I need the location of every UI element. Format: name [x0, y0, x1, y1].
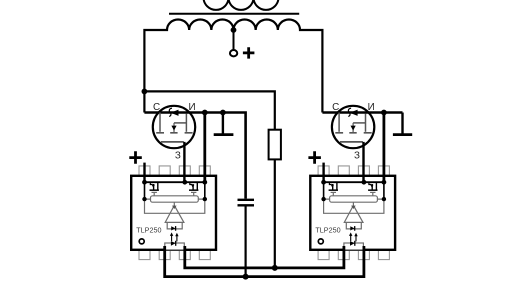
capacitor C1	[238, 200, 255, 206]
node: resistor junction on upper bus	[272, 265, 278, 271]
U1 receiver amplifier triangle	[173, 202, 175, 205]
U1 light arrows	[172, 235, 177, 242]
ground bar right	[401, 113, 403, 135]
svg-text:И: И	[368, 102, 375, 113]
U1 photodiode	[171, 226, 175, 230]
wire: resistor R1 to bottom bus	[274, 159, 276, 268]
U2 receiver amplifier triangle	[352, 202, 354, 205]
svg-text:TLP250: TLP250	[136, 225, 161, 234]
transistor VT2 channel stubs	[335, 132, 371, 134]
optocoupler U1 bottom pins	[139, 250, 210, 260]
U1 pin 1 indicator	[139, 239, 144, 244]
transistor VT1 substrate arrow	[173, 123, 175, 133]
transistor VT1 channel stubs	[156, 132, 192, 134]
U2 internal output transistor	[369, 182, 371, 184]
wire: plus supply stub into pin 8 of U2	[322, 163, 324, 183]
U2 pin 1 indicator	[318, 239, 323, 244]
ground bar left	[222, 113, 224, 135]
transistor VT2 source lead (internal)	[365, 114, 367, 132]
optocoupler U1 top pins	[139, 166, 210, 176]
center tap plus symbol	[243, 47, 255, 58]
transformer T1 core	[169, 13, 299, 15]
node: U1 bus junctions	[142, 180, 147, 185]
transistor VT1 arrow on drain-source wire	[171, 110, 179, 116]
node: source junction on drain-source wire	[202, 110, 208, 116]
transistor VT1 drain lead (internal)	[159, 113, 161, 132]
transformer T1 secondary winding with end leads	[144, 19, 322, 112]
U2 LED box	[344, 243, 364, 250]
wire: gate of VT1 down to pin of U1	[183, 142, 185, 182]
wire: gate of VT2 down to pin of U2	[362, 142, 364, 182]
transistor VT1 substrate link	[174, 122, 186, 124]
node: center tap junction	[231, 27, 237, 33]
resistor R1	[269, 130, 281, 160]
wire: feed to resistor	[144, 91, 274, 129]
wire: source of VT1 down to pin of U1	[203, 113, 206, 183]
U2 internal driver block	[324, 198, 384, 200]
transistor VT2 drain lead (internal)	[338, 113, 340, 132]
wire: capacitor C1 to bottom bus	[245, 207, 247, 277]
transistor VT1 gate electrode line	[161, 141, 184, 143]
transistor VT2 arrow on drain-source wire	[350, 110, 358, 116]
svg-text:З: З	[354, 150, 360, 161]
wire: bottom bus lower (U1 pin to U2 pin)	[165, 246, 364, 277]
power plus symbol near U2	[308, 151, 321, 164]
transistor VT2 lead hook mark	[348, 108, 351, 116]
transistor VT2 gate electrode line	[340, 141, 363, 143]
node: left ground tap	[220, 110, 226, 116]
svg-text:И: И	[189, 102, 196, 113]
U2 internal side rails	[324, 182, 384, 199]
wire: right drain-source rail	[322, 111, 402, 114]
node: source junction on drain-source wire	[381, 110, 387, 116]
svg-text:С: С	[153, 102, 160, 113]
optocoupler U2 top pins	[318, 166, 389, 176]
wire: left drain-source rail to capacitor	[144, 113, 245, 199]
node: capacitor junction on lower bus	[243, 274, 249, 280]
U1 internal output transistor	[150, 182, 152, 184]
wire: bottom bus upper (U1 pin to U2 pin)	[185, 246, 344, 268]
svg-text:З: З	[175, 150, 181, 161]
svg-text:С: С	[332, 102, 339, 113]
U1 LED box	[165, 243, 185, 250]
U1 LED diode	[171, 241, 176, 246]
U1 photodiode cup	[167, 222, 182, 229]
wire: plus supply stub into pin 8 of U1	[143, 163, 145, 183]
svg-text:TLP250: TLP250	[315, 225, 340, 234]
wire: center tap down to terminal	[233, 30, 235, 50]
transformer T1 primary winding	[204, 0, 279, 10]
U2 light arrows	[351, 235, 356, 242]
U2 internal output transistor	[329, 182, 331, 184]
transistor VT1 housing circle	[153, 106, 195, 148]
center tap terminal	[230, 50, 237, 56]
U2 LED diode	[350, 241, 355, 246]
node: junction on left secondary lead	[142, 89, 148, 95]
transistor VT1 source lead (internal)	[185, 114, 187, 132]
transistor VT2 housing circle	[332, 106, 374, 148]
U2 photodiode cup	[346, 222, 361, 229]
wire: source of VT2 down to pin of U2	[382, 113, 385, 183]
U1 internal side rails	[145, 182, 205, 199]
power plus symbol near U1	[129, 151, 142, 164]
optocoupler U1 package body	[131, 176, 216, 250]
transistor VT1 lead hook mark	[169, 108, 172, 116]
node: U2 bus junctions	[321, 180, 326, 185]
U2 photodiode	[350, 226, 354, 230]
optocoupler U2 package body	[310, 176, 395, 250]
U1 internal output transistor	[190, 182, 192, 184]
U1 internal driver block	[145, 198, 205, 200]
transistor VT2 substrate arrow	[352, 123, 354, 133]
U1 internal supply bus	[145, 181, 205, 183]
transistor VT2 substrate link	[353, 122, 365, 124]
optocoupler U2 bottom pins	[318, 250, 389, 260]
U2 internal supply bus	[324, 181, 384, 183]
